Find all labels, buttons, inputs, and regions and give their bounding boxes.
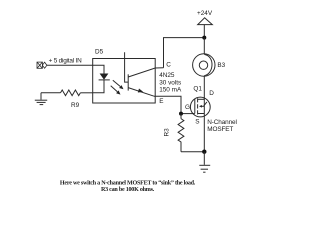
wire ground to R9 <box>41 92 61 94</box>
resistor R9 <box>61 90 81 96</box>
light arrow 2 <box>111 86 121 95</box>
wire R3 to source node <box>181 151 204 153</box>
LED (inside D5) <box>99 74 110 80</box>
svg-text:R3 can be 100K ohms.: R3 can be 100K ohms. <box>101 187 155 193</box>
resistor R3 <box>178 114 184 152</box>
svg-text:B3: B3 <box>217 62 225 69</box>
svg-text:R3: R3 <box>164 128 171 137</box>
svg-text:+ 5 digital IN: + 5 digital IN <box>49 58 82 65</box>
svg-text:E: E <box>159 98 163 105</box>
phototransistor emitter <box>128 88 154 97</box>
emitter arrowhead <box>138 89 143 93</box>
LED cathode wire <box>93 80 104 93</box>
svg-text:C: C <box>166 62 171 69</box>
svg-text:Q1: Q1 <box>193 85 202 92</box>
wire R9 to optocoupler <box>80 92 92 94</box>
svg-text:G: G <box>185 104 190 111</box>
gate node junction <box>179 112 183 116</box>
phototransistor base bar <box>127 74 129 90</box>
svg-text:Here we switch a N-channel MOS: Here we switch a N-channel MOSFET to “si… <box>60 180 196 186</box>
svg-text:30 volts: 30 volts <box>159 80 181 87</box>
MOSFET Q1 <box>190 97 210 117</box>
ground (right) <box>199 152 210 173</box>
gate wire <box>181 113 195 115</box>
svg-text:S: S <box>195 119 199 126</box>
svg-text:4N25: 4N25 <box>159 72 175 79</box>
phototransistor collector <box>128 68 163 77</box>
input terminal (+5 digital IN port) <box>37 62 47 68</box>
svg-text:D5: D5 <box>95 49 104 56</box>
optocoupler D5 box <box>93 59 156 104</box>
emitter wire to gate node <box>154 96 181 113</box>
phototransistor base stub (pin 6) <box>125 52 129 82</box>
svg-text:+24V: +24V <box>197 10 213 17</box>
collector wire up to +24V rail <box>164 38 205 68</box>
svg-text:N-Channel: N-Channel <box>207 119 236 126</box>
wire terminal to optocoupler <box>47 64 93 66</box>
light arrow 1 <box>113 80 124 89</box>
LED anode wire <box>93 65 104 74</box>
source node junction <box>202 150 206 154</box>
+24V power symbol <box>198 18 213 38</box>
wire lamp to MOSFET drain <box>203 76 205 113</box>
ground (left) <box>35 93 47 105</box>
svg-text:D: D <box>209 90 214 97</box>
lamp B3 <box>193 54 215 76</box>
svg-text:R9: R9 <box>71 102 80 109</box>
wire rail to lamp <box>203 38 205 54</box>
svg-text:MOSFET: MOSFET <box>207 126 233 133</box>
junction node (rail / collector) <box>202 36 206 40</box>
MOSFET source wire <box>203 114 205 152</box>
svg-text:150 mA: 150 mA <box>159 87 182 94</box>
